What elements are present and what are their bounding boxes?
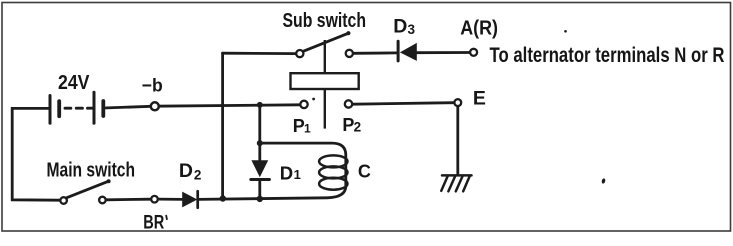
- wire bottom rail: BR to diode D2: [158, 198, 182, 201]
- svg-text:1: 1: [294, 167, 301, 182]
- svg-text:C: C: [358, 161, 371, 181]
- coil C windings: [319, 155, 347, 189]
- wire vertical drop from sub-switch feed to bottom rail: [221, 53, 224, 198]
- svg-text:D: D: [179, 160, 193, 182]
- wire battery to node -b to contact P1: [104, 105, 300, 108]
- wire battery left loop: [12, 108, 60, 200]
- terminal -b: [151, 102, 159, 110]
- svg-text:2: 2: [194, 168, 202, 183]
- svg-text:P: P: [293, 116, 305, 136]
- sub switch right contact: [346, 50, 353, 57]
- svg-text:BR: BR: [143, 212, 164, 234]
- relay actuator link upper: [324, 40, 326, 73]
- svg-text:Main switch: Main switch: [47, 160, 136, 182]
- node junction bottom rail at D1: [257, 196, 263, 202]
- terminal E: [454, 99, 461, 106]
- diode D1: [251, 160, 270, 179]
- battery 24V plates: [50, 92, 103, 123]
- contact P2: [345, 100, 352, 107]
- diode D2: [182, 191, 198, 208]
- svg-text:2: 2: [354, 120, 362, 135]
- ground symbol: [441, 175, 471, 191]
- wire diode D3 to terminal A(R): [417, 51, 469, 54]
- contact P1: [300, 101, 307, 108]
- diode D3: [398, 41, 417, 61]
- svg-text:To alternator terminals N or R: To alternator terminals N or R: [490, 43, 725, 67]
- wire sub switch right contact to diode D3: [354, 52, 397, 55]
- relay armature plate: [291, 73, 359, 89]
- main switch left contact: [60, 197, 67, 204]
- svg-text:−b: −b: [142, 75, 163, 96]
- wire D1 cathode to bottom rail: [258, 181, 261, 199]
- main switch arm: [67, 181, 109, 198]
- speck near P1: [312, 98, 315, 101]
- wire contact P2 to terminal E: [353, 103, 454, 105]
- sub switch left contact: [296, 50, 303, 57]
- svg-text:1: 1: [304, 121, 311, 135]
- svg-text:E: E: [473, 88, 486, 110]
- relay actuator link lower: [324, 89, 326, 128]
- svg-text:D: D: [393, 16, 407, 38]
- node junction on main wire: [257, 102, 263, 108]
- speck lower right: [601, 178, 606, 184]
- node junction bottom rail at vertical drop: [220, 195, 226, 201]
- node junction D1 top / coil top: [257, 140, 263, 146]
- wire terminal E down to ground: [456, 107, 459, 175]
- svg-text:A(R): A(R): [460, 17, 498, 39]
- svg-text:3: 3: [408, 22, 416, 37]
- sub switch arm: [304, 33, 349, 51]
- speck above between A(R) and text: [564, 30, 567, 33]
- wire bottom rail: main switch to BR: [106, 198, 151, 201]
- wire bottom rail: D2 through junctions to coil, coil loop to top junction: [198, 143, 346, 199]
- wire sub-switch feed (node to sub switch left contact): [223, 52, 296, 55]
- main switch right contact: [99, 197, 106, 204]
- speck apostrophe after BR: [165, 216, 168, 220]
- svg-text:24V: 24V: [58, 71, 90, 94]
- terminal BR: [151, 196, 158, 203]
- terminal A(R): [470, 49, 477, 56]
- svg-text:D: D: [280, 163, 293, 184]
- wire vertical from main node down to D1 top junction: [258, 105, 261, 160]
- svg-text:Sub switch: Sub switch: [283, 9, 367, 32]
